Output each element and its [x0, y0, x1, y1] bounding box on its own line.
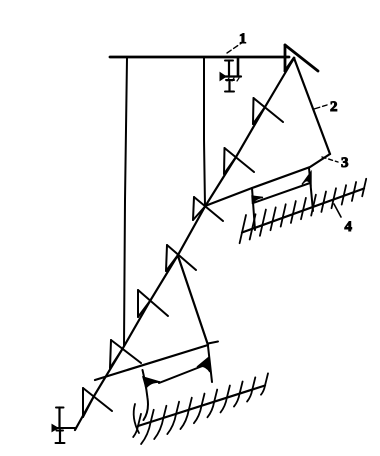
middle comb teeth — [240, 179, 367, 243]
bottom anchor tie line — [55, 427, 76, 429]
lower frame left gusset — [143, 377, 160, 388]
lower deflector right edge — [178, 256, 208, 345]
middle comb spine — [242, 189, 364, 233]
lower frame cross bar — [159, 365, 205, 383]
lower deflector bottom edge — [95, 345, 208, 380]
float pennant 5 — [167, 245, 196, 270]
anchor symbol bottom: mid tick — [57, 430, 64, 432]
leader line to label 4 — [334, 204, 341, 217]
middle frame left gusset — [252, 196, 263, 204]
middle frame right gusset — [302, 172, 311, 185]
anchor bracket hatch ticks (top) — [227, 78, 229, 81]
bottom anchor arrowhead — [52, 425, 58, 432]
anchor symbol top: lower I top serif — [226, 79, 234, 81]
anchor bracket arrowhead (top) — [220, 73, 226, 81]
anchor symbol top: lower I stem — [228, 80, 230, 91]
lower deflector corner tick — [208, 342, 218, 344]
deflector 2 right edge — [294, 58, 330, 154]
anchor symbol bottom: upper I stem — [58, 408, 60, 428]
anchor symbol top: upper I serif — [225, 60, 233, 62]
lower comb left long bristle — [134, 404, 139, 433]
anchor bracket vertical (top) — [237, 57, 240, 76]
anchor symbol bottom: lower I bottom serif — [56, 442, 65, 444]
anchor symbol bottom: lower I stem — [59, 430, 61, 442]
guide line 3 (from vertex to boom) — [205, 154, 330, 206]
leader line to label 2 — [314, 105, 327, 109]
float pennant 6 — [138, 290, 168, 316]
float pennant 8 — [83, 388, 112, 411]
float pennant 3 — [225, 148, 255, 172]
middle frame left hanger — [252, 188, 255, 230]
middle frame right hanger — [309, 168, 313, 211]
svg-text:1: 1 — [239, 31, 247, 47]
lower comb teeth — [133, 373, 268, 444]
anchor symbol bottom: upper I serif — [56, 407, 64, 409]
float pennant 4 — [194, 197, 223, 221]
svg-text:4: 4 — [345, 219, 353, 235]
lower frame right gusset — [197, 358, 210, 372]
float pennant 7 — [111, 340, 141, 363]
float pennant 1 (apex, bold) — [285, 45, 318, 71]
anchor symbol top: lower I bottom serif — [225, 91, 234, 93]
lower frame right hanger — [208, 346, 212, 382]
anchor symbol top: upper I stem — [228, 61, 230, 76]
lower comb spine — [138, 386, 265, 427]
mooring line middle (vertical dropper) — [204, 58, 205, 206]
shore line (top horizontal) — [110, 56, 289, 59]
leader line to label 1 — [227, 42, 243, 53]
svg-text:3: 3 — [341, 155, 349, 171]
lower frame left hanger — [143, 370, 149, 420]
float pennant 2 — [254, 98, 284, 122]
svg-text:2: 2 — [330, 99, 338, 115]
main boom line (diagonal) — [75, 58, 294, 430]
anchor bracket bar (top) — [222, 75, 241, 77]
mooring line left (vertical dropper) — [124, 58, 127, 346]
middle frame cross bar — [253, 183, 310, 203]
leader line to label 3 — [322, 157, 338, 162]
